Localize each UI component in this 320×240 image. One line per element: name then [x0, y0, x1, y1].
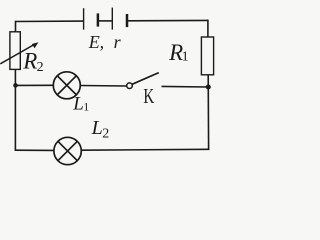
svg-text:K: K — [143, 84, 154, 108]
wire bottom-right (lamp L2 to corner) — [81, 148, 209, 151]
wire middle (lamp L1 to switch) — [80, 85, 126, 88]
resistor R1 (box) — [201, 37, 213, 75]
label R1 — [168, 40, 189, 65]
wire top-left segment — [16, 20, 84, 22]
wire bottom-left (corner to lamp L2) — [15, 149, 54, 151]
svg-text:L: L — [91, 117, 103, 139]
svg-text:2: 2 — [37, 60, 44, 75]
node A (junction dot left) — [13, 83, 18, 88]
label L1 — [72, 94, 89, 115]
svg-text:2: 2 — [102, 127, 109, 142]
lamp L1 — [53, 72, 80, 99]
label E, r — [88, 32, 122, 52]
wire middle-left (node A to lamp L1) — [16, 84, 54, 86]
wire right vertical lower (R1 to bottom corner) — [207, 75, 209, 150]
wire top-right segment — [127, 19, 208, 21]
cell 2 short plate — [126, 14, 129, 27]
svg-text:E,: E, — [88, 32, 105, 52]
wire right vertical upper (top corner to R1) — [207, 20, 209, 38]
label L2 — [91, 117, 110, 142]
battery E,r (two cells) — [84, 8, 127, 30]
switch K — [127, 73, 159, 89]
svg-text:1: 1 — [83, 99, 89, 113]
resistor R2 (rheostat box) — [10, 32, 20, 70]
lamp L2 — [54, 137, 81, 164]
wire left vertical lower (R2 to bottom corner) — [14, 69, 16, 150]
cell 2 long plate — [111, 8, 113, 30]
wire middle-right (switch to node B) — [162, 85, 209, 88]
label R2 — [22, 48, 43, 75]
wire left vertical upper (top corner to R2) — [15, 21, 17, 33]
svg-text:r: r — [114, 32, 122, 52]
rheostat arrow — [0, 42, 38, 64]
svg-text:R: R — [22, 48, 37, 73]
cell 1 short plate — [97, 13, 100, 26]
svg-text:1: 1 — [182, 50, 189, 65]
cell 1 long plate — [83, 8, 85, 29]
wire between cells — [99, 20, 113, 22]
node B (junction dot right) — [206, 85, 211, 90]
svg-text:L: L — [72, 94, 84, 115]
